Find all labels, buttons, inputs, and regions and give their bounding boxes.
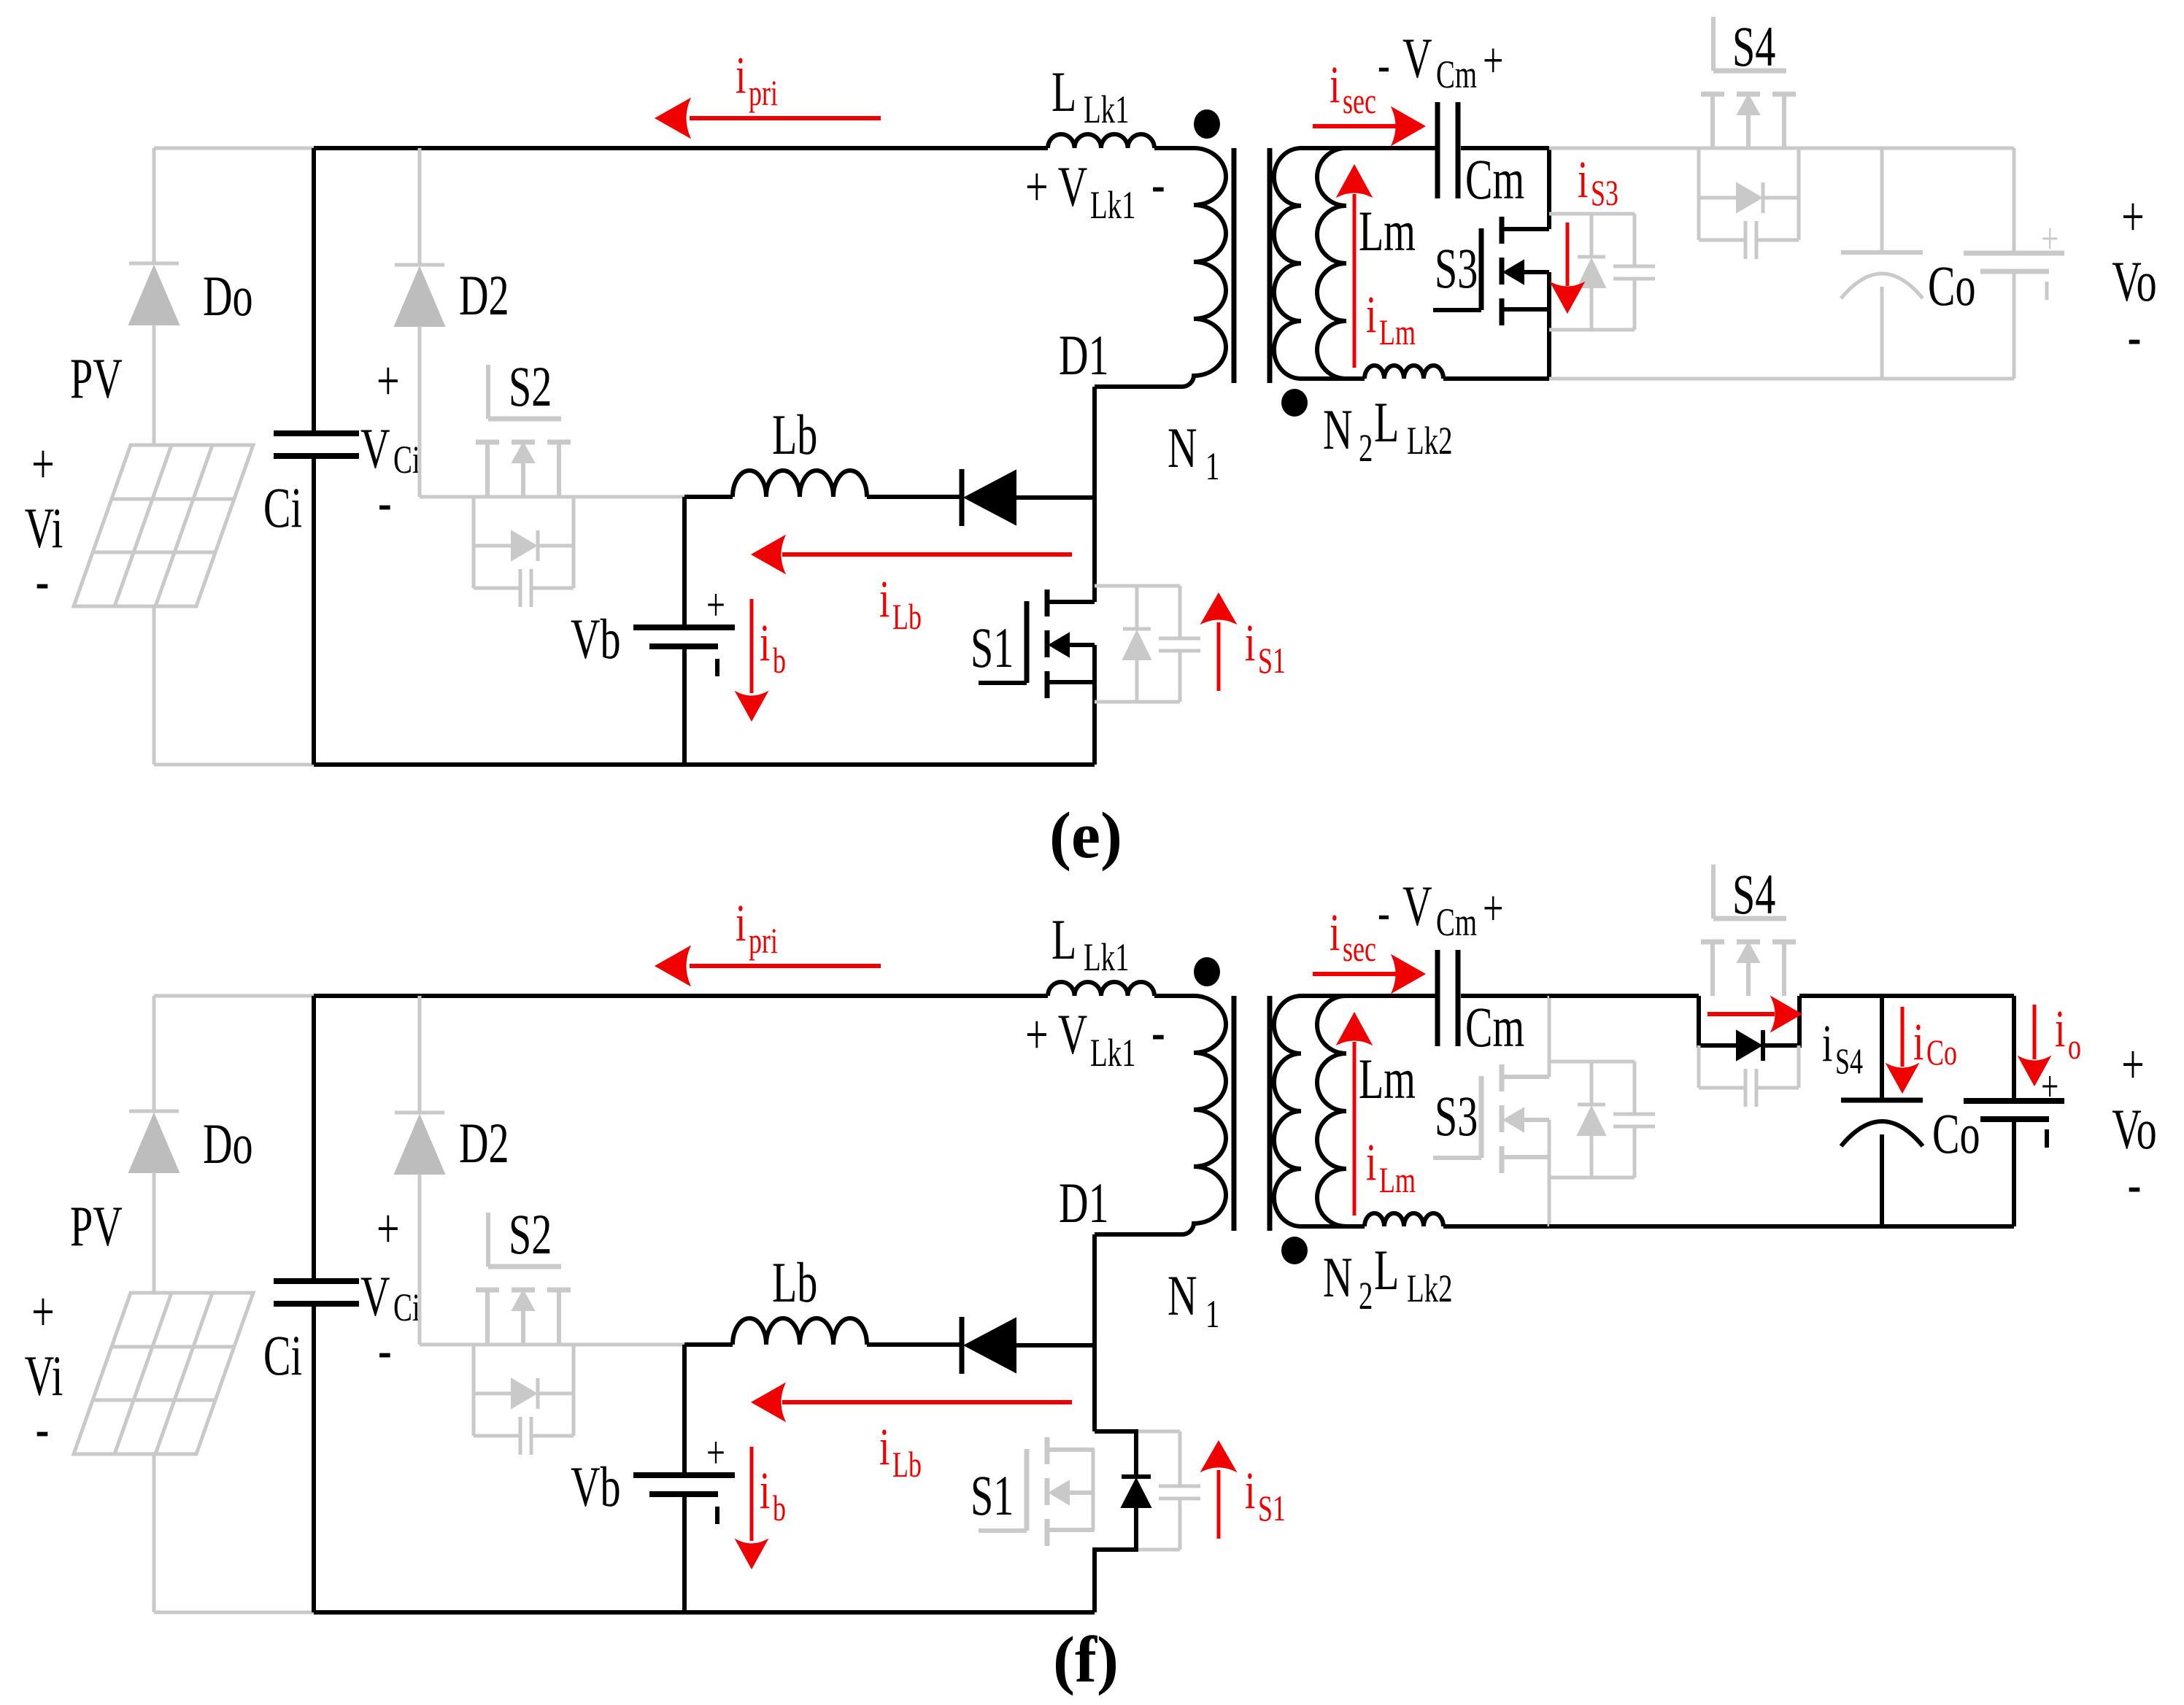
svg-text:+: + [706,1427,725,1479]
capacitor Cm (e) [1435,102,1440,198]
transistor S4 (f) [1701,940,1724,945]
svg-text:Lm: Lm [1359,199,1416,263]
svg-text:i: i [760,1461,770,1520]
transformer winding N1 (f) [1154,994,1194,998]
transformer dot secondary (f) [1281,1237,1308,1264]
current arrow ipri (e) [690,116,881,120]
svg-text:Cm: Cm [1465,995,1524,1059]
svg-text:Lk1: Lk1 [1090,184,1136,228]
PV panel (e) [74,445,253,606]
svg-text:i: i [1330,903,1340,962]
svg-text:Lk1: Lk1 [1084,88,1130,132]
svg-text:i: i [736,894,746,952]
svg-text:N: N [1323,398,1353,461]
transistor S3 (e) [1500,217,1505,244]
svg-text:i: i [1245,614,1255,672]
svg-text:S3: S3 [1591,173,1618,213]
svg-text:L: L [1374,390,1399,454]
wire top rail (f) [314,994,1048,998]
svg-text:b: b [773,1488,786,1528]
svg-text:N: N [1168,416,1197,479]
svg-text:+: + [31,1280,55,1343]
transformer dot secondary (e) [1281,389,1308,417]
svg-text:+: + [2041,1062,2058,1111]
svg-text:Lk2: Lk2 [1407,420,1453,463]
snubber diode and capacitor of S2 (f) [472,1344,476,1436]
capacitor Ci (f) [274,1278,359,1284]
current arrow iLb (f) [782,1400,1072,1404]
snubber diode and capacitor of S3 (f) [1549,1060,1635,1064]
svg-text:N: N [1168,1264,1197,1327]
svg-text:i: i [1913,1013,1923,1071]
svg-text:Lm: Lm [1379,1160,1416,1200]
diode Do (e) [153,148,156,263]
inductor Lb (f) [733,1318,867,1345]
transformer core (f) [1232,996,1237,1231]
wire Vb stem (e) [682,497,687,627]
svg-text:i: i [760,614,770,672]
svg-text:2: 2 [1359,1275,1373,1318]
svg-text:2: 2 [1359,427,1373,471]
svg-text:b: b [773,641,786,681]
wire S3 drain vertical (e) [1547,148,1551,229]
svg-text:-: - [2128,304,2142,368]
wire S1 grey DS vertical (f) [1092,1450,1095,1530]
svg-text:-: - [1378,37,1390,93]
svg-text:+: + [2121,1032,2145,1096]
battery Vo (e) [1964,251,2064,256]
svg-text:i: i [879,570,890,628]
svg-text:S4: S4 [1732,862,1775,926]
wire PV stem (f) [153,1454,156,1612]
svg-text:Vb: Vb [571,1455,621,1518]
svg-text:-: - [36,1396,50,1460]
current arrow io (f) [2033,1005,2037,1059]
svg-text:-: - [378,470,392,533]
svg-text:-: - [2128,1152,2142,1215]
transformer core (e) [1232,148,1237,383]
svg-text:+: + [377,1196,400,1260]
svg-text:i: i [1245,1461,1255,1520]
label - of Vb (e) [715,659,719,676]
svg-text:Lk2: Lk2 [1407,1267,1453,1311]
wire left vertical (e) [312,148,316,433]
svg-text:sec: sec [1343,929,1376,969]
wire grey top-left rail (e) [154,147,314,150]
svg-text:S1: S1 [1258,1488,1286,1528]
wire S2 rail (f) [420,1343,684,1347]
wire S2 rail (e) [420,495,684,499]
wire grey top-left rail (f) [154,994,314,998]
wire secondary top (e) [1301,146,1438,150]
snubber diode and capacitor of S1 (e) [1095,584,1180,588]
svg-text:Cm: Cm [1465,147,1524,211]
wire secondary top (f) [1301,994,1438,998]
current arrow isec (e) [1313,124,1397,128]
svg-text:PV: PV [70,347,123,410]
wire grey bottom-left rail (f) [154,1611,314,1615]
wire secondary bottom rail right (e) [1549,377,2014,381]
snubber diode and capacitor of S4 (e) [1697,148,1701,240]
svg-text:S2: S2 [509,1202,552,1266]
svg-text:(e): (e) [1049,800,1122,872]
wire N1 to S1 vertical (e) [1092,387,1097,584]
svg-text:pri: pri [749,921,778,961]
capacitor Ci (e) [274,430,359,436]
svg-text:L: L [1052,60,1076,123]
svg-text:D2: D2 [459,1111,509,1175]
svg-text:L: L [1374,1238,1399,1302]
capacitor Co (e) [1841,250,1923,255]
current arrow iLb (e) [782,552,1072,557]
label - of Vo battery (f) [2045,1129,2049,1148]
svg-text:Lb: Lb [892,1445,922,1485]
svg-text:sec: sec [1343,81,1376,121]
svg-text:-: - [1151,152,1165,215]
current arrow ib (e) [750,599,754,693]
transformer dot primary (f) [1194,957,1220,986]
svg-text:-: - [1151,1000,1165,1063]
wire PV stem (e) [153,606,156,765]
svg-text:1: 1 [1205,1293,1219,1337]
inductor LLk2 (e) [1365,366,1443,379]
snubber diode and capacitor of S3 (e) [1549,212,1635,216]
current arrow iCo (f) [1901,1007,1905,1067]
diode D2 (f) [418,996,422,1113]
svg-text:o: o [2068,1027,2081,1067]
wire secondary bottom (e) [1301,376,1365,381]
wire N1 to S1 vertical (f) [1092,1234,1097,1431]
diode D2 (e) [418,148,422,265]
wire Co branch (e) [1880,148,1884,252]
svg-text:i: i [2055,1000,2065,1058]
svg-text:Ci: Ci [393,438,420,482]
svg-text:Lb: Lb [892,597,922,637]
transformer dot primary (e) [1194,109,1220,139]
wire grey bottom-left rail (e) [154,763,314,767]
svg-text:+: + [1483,881,1503,937]
transformer winding Lm (f) [1317,996,1346,1226]
snubber diode and capacitor of S2 (e) [472,496,476,588]
transformer winding N1 (e) [1154,146,1194,150]
svg-text:+ V: + V [1025,1002,1087,1066]
current arrow ipri (f) [690,964,881,968]
svg-text:Do: Do [203,264,253,328]
diode Do (f) [153,996,156,1111]
svg-text:V: V [1402,874,1432,937]
current arrow iS1 (f) [1217,1470,1221,1539]
svg-text:S3: S3 [1435,236,1478,300]
svg-text:Co: Co [1932,1102,1980,1165]
wire S3 drain vertical (f) [1548,996,1551,1077]
svg-text:Lb: Lb [772,403,817,466]
label - of Vo battery (e) [2045,282,2049,300]
svg-text:i: i [1578,150,1588,209]
wire S4 body-diode jog (f) [1699,996,1737,1045]
svg-text:V: V [1402,26,1432,90]
PV panel (f) [74,1293,253,1454]
svg-text:i: i [1822,1014,1832,1072]
svg-text:Lk1: Lk1 [1090,1032,1136,1075]
wire secondary bottom (f) [1301,1224,1365,1229]
svg-text:Do: Do [203,1112,253,1175]
svg-text:N: N [1323,1245,1353,1309]
svg-text:-: - [36,549,50,612]
svg-text:S4: S4 [1835,1041,1863,1081]
svg-text:D1: D1 [1059,323,1109,387]
wire S1 body-diode path (f) [1095,1431,1136,1477]
svg-text:pri: pri [749,73,778,113]
wire top rail right (e) [1549,147,2014,150]
snubber capacitor of S1 (f) [1136,1430,1180,1434]
svg-text:D2: D2 [459,263,509,327]
svg-text:PV: PV [70,1194,123,1258]
wire top rail right (f) [1549,994,1699,998]
svg-text:S3: S3 [1435,1084,1478,1148]
svg-text:+: + [31,432,55,495]
snubber capacitor of S4 (f) [1697,1045,1701,1088]
current arrow isec (f) [1313,972,1397,976]
capacitor Co (f) [1841,1098,1923,1103]
svg-text:Ci: Ci [263,476,302,539]
current arrow iS1 (e) [1217,622,1221,691]
transistor S4 (e) [1701,92,1724,97]
transformer winding Lm (e) [1317,148,1346,379]
svg-text:+: + [706,579,725,631]
diode S1 body (f) [1122,1474,1151,1479]
wire primary bottom rail (f) [314,1610,1095,1615]
svg-text:S4: S4 [1732,15,1775,78]
current arrow iLm (f) [1353,1042,1357,1215]
diode D1 (e) [960,469,965,526]
label - of Vb (f) [715,1507,719,1524]
wire top rail (e) [314,146,1048,150]
wire secondary bottom rail right (f) [1549,1224,2014,1229]
current arrow iLm (e) [1353,194,1357,368]
svg-text:(f): (f) [1053,1624,1119,1696]
svg-text:Lm: Lm [1379,312,1416,352]
diode D1 (f) [960,1317,965,1374]
svg-text:Cm: Cm [1436,53,1477,97]
svg-text:i: i [1330,55,1340,114]
wire output right vertical (f) [2012,996,2016,1101]
wire S3 source vertical (e) [1547,272,1551,379]
wire Lb line (f) [684,1342,733,1347]
svg-text:i: i [879,1418,890,1476]
wire left vertical (f) [312,996,316,1281]
wire primary bottom rail (e) [314,762,1095,767]
current arrow ib (f) [750,1447,754,1541]
transistor S3 (f) [1500,1064,1505,1091]
svg-text:Cm: Cm [1436,901,1477,945]
wire S3 source vertical (f) [1548,1120,1551,1226]
svg-text:+: + [377,349,400,412]
battery Vb (f) [633,1472,735,1478]
battery Vo (f) [1964,1098,2064,1104]
svg-text:S2: S2 [509,355,552,418]
transistor S1 (e) [1045,589,1050,616]
diode S4 body (f) [1737,1031,1762,1060]
svg-text:Co: Co [1928,254,1976,317]
svg-text:Co: Co [1926,1032,1957,1072]
battery Vb (e) [633,625,735,630]
svg-text:1: 1 [1205,445,1219,489]
inductor Lb (e) [733,471,867,497]
svg-text:+: + [1483,33,1503,89]
transistor S1 (f) [1045,1437,1050,1464]
svg-text:i: i [1366,285,1376,344]
transformer winding N2 (e) [1274,148,1301,379]
svg-text:i: i [1366,1133,1376,1191]
wire Co branch (f) [1880,996,1884,1100]
svg-text:L: L [1052,908,1076,971]
svg-text:+: + [2121,185,2145,248]
wire S1 source vertical (e) [1092,645,1097,765]
svg-text:Vb: Vb [571,607,621,670]
svg-text:i: i [736,46,746,104]
capacitor Cm (f) [1435,950,1440,1046]
transistor S2 (e) [476,440,499,445]
svg-text:S1: S1 [971,616,1014,679]
wire output right vertical (e) [2013,148,2016,253]
wire Lb line (e) [684,495,733,499]
inductor LLk1 (e) [1048,134,1154,148]
svg-text:+ V: + V [1025,155,1087,218]
svg-text:Ci: Ci [393,1286,420,1330]
wire Vb stem (f) [682,1345,687,1475]
svg-text:D1: D1 [1059,1171,1109,1234]
svg-text:-: - [1378,885,1390,941]
svg-text:S1: S1 [1258,641,1286,681]
svg-text:Lb: Lb [772,1250,817,1314]
current arrow iS3 (e) [1566,223,1570,286]
transformer winding N2 (f) [1274,996,1301,1226]
svg-text:Ci: Ci [263,1323,302,1387]
svg-text:Lm: Lm [1359,1047,1416,1110]
current arrow iS4 (f) [1708,1012,1775,1016]
transistor S2 (f) [476,1288,499,1293]
inductor LLk2 (f) [1365,1213,1443,1226]
inductor LLk1 (f) [1048,982,1154,996]
svg-text:+: + [2041,214,2058,263]
svg-text:-: - [378,1318,392,1381]
svg-text:Lk1: Lk1 [1084,936,1130,980]
svg-text:S1: S1 [971,1464,1014,1527]
